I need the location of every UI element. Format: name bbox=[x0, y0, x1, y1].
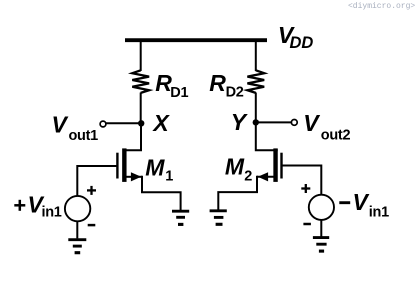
wire M2 gate to right source bbox=[282, 166, 322, 196]
wire right source to ground bbox=[320, 220, 322, 237]
wire M1 gate to left source bbox=[77, 166, 117, 196]
wire M2 source to ground bbox=[218, 176, 257, 210]
terminal Vout1 bbox=[100, 121, 106, 127]
label Vout2 bbox=[303, 110, 350, 144]
svg-text:2: 2 bbox=[244, 169, 252, 185]
svg-text:V: V bbox=[353, 189, 370, 215]
wire M1 source to ground bbox=[142, 176, 181, 211]
label -Vin1 bbox=[339, 189, 389, 220]
label VDD bbox=[278, 22, 314, 52]
svg-text:Y: Y bbox=[231, 109, 249, 135]
VDD bus bbox=[125, 38, 267, 42]
wire node Y to M2 drain bbox=[256, 121, 278, 150]
svg-text:1: 1 bbox=[165, 169, 173, 185]
resistor RD2 bbox=[247, 70, 264, 93]
wire node Y to Vout2 terminal bbox=[258, 121, 292, 123]
resistor RD1 bbox=[132, 70, 149, 93]
svg-text:D1: D1 bbox=[170, 85, 188, 101]
label M1 bbox=[145, 154, 173, 184]
svg-text:DD: DD bbox=[290, 34, 314, 52]
wire node X to Vout1 terminal bbox=[106, 122, 140, 124]
svg-text:V: V bbox=[52, 112, 69, 138]
wire RD2 to node Y bbox=[255, 93, 257, 125]
voltage source Vin1 right bbox=[301, 184, 334, 224]
svg-text:X: X bbox=[151, 110, 170, 136]
ground (M2 source) bbox=[210, 211, 227, 225]
terminal Vout2 bbox=[291, 120, 297, 126]
ground (M1 source) bbox=[172, 211, 189, 224]
svg-text:in1: in1 bbox=[369, 204, 389, 220]
transistor M1 bbox=[117, 148, 142, 182]
svg-text:M: M bbox=[225, 154, 245, 180]
label +Vin1 bbox=[14, 192, 61, 221]
wire node X to M1 drain bbox=[126, 122, 141, 150]
node X junction dot bbox=[138, 120, 144, 126]
svg-text:M: M bbox=[145, 154, 165, 180]
ground (left source) bbox=[68, 240, 86, 253]
ground (right source) bbox=[313, 238, 329, 252]
svg-text:R: R bbox=[209, 70, 226, 96]
voltage source Vin1 left bbox=[65, 186, 96, 225]
label RD2 bbox=[209, 70, 243, 101]
svg-text:<diymicro.org>: <diymicro.org> bbox=[348, 2, 415, 11]
svg-text:out1: out1 bbox=[69, 128, 99, 144]
svg-text:D2: D2 bbox=[226, 85, 244, 101]
label Vout1 bbox=[52, 112, 99, 145]
svg-text:in1: in1 bbox=[42, 204, 62, 220]
label M2 bbox=[225, 154, 252, 185]
label RD1 bbox=[155, 70, 188, 101]
svg-text:V: V bbox=[303, 110, 320, 136]
wire bus to RD2 bbox=[255, 40, 257, 71]
wire RD1 to node X bbox=[140, 93, 142, 125]
transistor M2 bbox=[257, 148, 282, 182]
wire bus to RD1 bbox=[140, 40, 142, 71]
svg-text:out2: out2 bbox=[321, 127, 351, 143]
node Y junction dot bbox=[253, 119, 259, 125]
wire left source to ground bbox=[76, 221, 78, 238]
